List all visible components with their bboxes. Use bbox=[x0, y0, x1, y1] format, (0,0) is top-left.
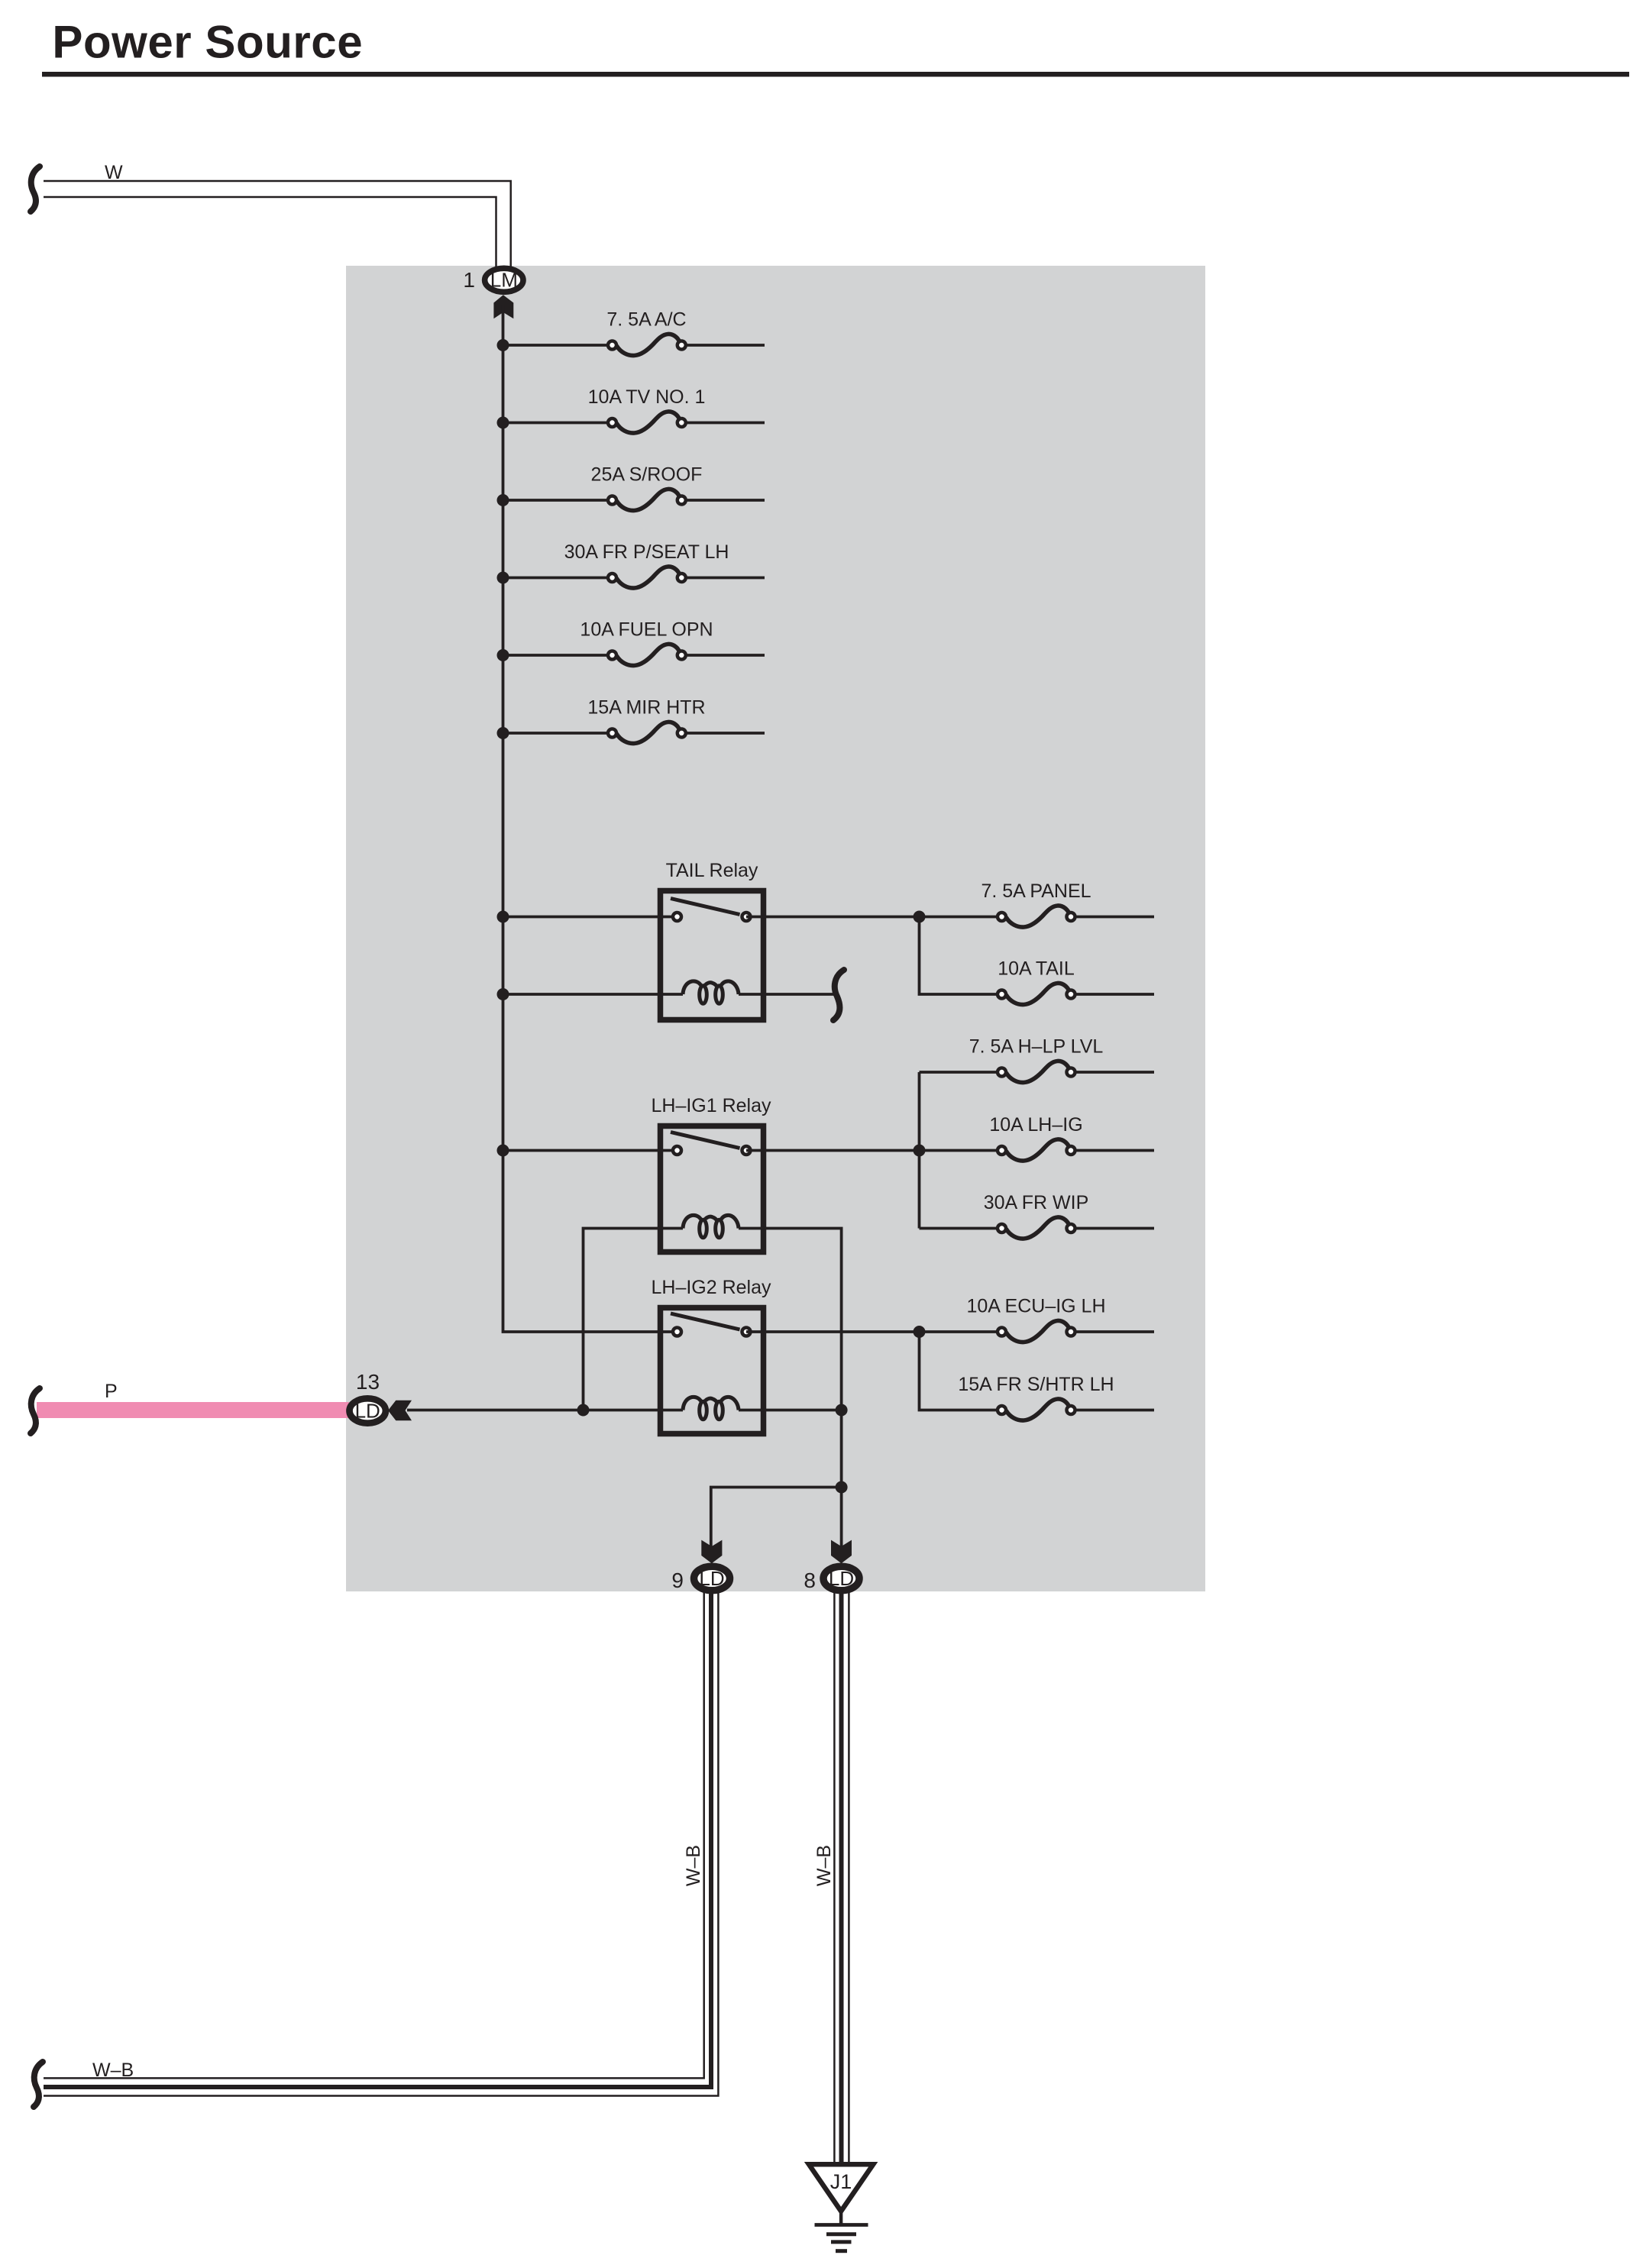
connector 8 LD arrow (down) bbox=[831, 1540, 852, 1564]
wire junction down to TAIL fuse row bbox=[920, 917, 1002, 995]
wire to FR WIP fuse bbox=[920, 1227, 1002, 1230]
fuse 10A LH-IG bbox=[998, 1139, 1154, 1161]
relay LH-IG1 box bbox=[661, 1126, 764, 1252]
node bus-MIR bbox=[497, 727, 509, 739]
wire coil output down to ground branch bbox=[840, 1410, 843, 1551]
title underline bbox=[42, 72, 1629, 77]
connector 9 LD ellipse bbox=[694, 1566, 730, 1591]
node IG2 out junction bbox=[914, 1326, 926, 1338]
node ground branch junction bbox=[836, 1481, 848, 1494]
svg-text:Power Source: Power Source bbox=[52, 17, 363, 68]
wire TAIL coil output bbox=[739, 993, 837, 996]
svg-text:15A FR S/HTR LH: 15A FR S/HTR LH bbox=[958, 1374, 1114, 1395]
ground bar 1 bbox=[815, 2223, 868, 2227]
relay LH-IG2 coil bbox=[683, 1397, 739, 1419]
wire to fuse FUEL bbox=[503, 654, 613, 657]
svg-text:W–B: W–B bbox=[92, 2060, 134, 2081]
fuse 10A ECU-IG LH bbox=[998, 1320, 1154, 1342]
ground bar 4 bbox=[836, 2249, 847, 2253]
relay LH-IG1 switch contacts and blade bbox=[671, 1132, 751, 1155]
junction block J/B background bbox=[346, 266, 1205, 1591]
svg-text:LH–IG2 Relay: LH–IG2 Relay bbox=[651, 1277, 771, 1298]
relay LH-IG2 box bbox=[661, 1308, 764, 1434]
svg-text:10A TAIL: 10A TAIL bbox=[998, 958, 1075, 980]
wire W-B (white/black) from 8 LD down to ground bbox=[834, 1592, 849, 2163]
wire W (white, double line) top-left bbox=[44, 181, 511, 267]
fuse 25A S/ROOF bbox=[608, 489, 765, 510]
connector 9 LD arrow (down) bbox=[701, 1540, 722, 1564]
wire IG1 switch output bbox=[746, 1149, 1002, 1152]
svg-text:10A LH–IG: 10A LH–IG bbox=[989, 1114, 1082, 1136]
wire IG1 coil output down to IG2 coil output bbox=[739, 1229, 842, 1410]
wavy cut symbol at TAIL coil output bbox=[833, 970, 844, 1020]
svg-text:1: 1 bbox=[463, 268, 475, 292]
connector 13 LD ellipse bbox=[350, 1398, 386, 1423]
svg-text:J1: J1 bbox=[830, 2170, 852, 2193]
svg-text:LH–IG1 Relay: LH–IG1 Relay bbox=[651, 1095, 771, 1116]
node bus-TV bbox=[497, 417, 509, 429]
wire to fuse MIR bbox=[503, 732, 613, 735]
node bus-A/C bbox=[497, 339, 509, 351]
node TAIL out junction bbox=[914, 911, 926, 923]
wire IG2 switch output bbox=[746, 1330, 1002, 1333]
fuse 10A FUEL OPN bbox=[608, 644, 765, 665]
wire P (pink) from cut to connector 13 LD bbox=[37, 1402, 349, 1418]
node IG1 out junction bbox=[914, 1145, 926, 1157]
node bus-P/SEAT bbox=[497, 572, 509, 584]
fuse 7.5A H-LP LVL bbox=[998, 1061, 1154, 1082]
svg-text:TAIL Relay: TAIL Relay bbox=[666, 860, 758, 881]
svg-text:W–B: W–B bbox=[813, 1845, 835, 1886]
node bus-TAIL switch bbox=[497, 911, 509, 923]
wire branch to 9 LD bbox=[711, 1488, 842, 1551]
wire bus to TAIL coil bbox=[503, 993, 684, 996]
svg-text:7. 5A A/C: 7. 5A A/C bbox=[606, 309, 686, 331]
relay TAIL coil bbox=[683, 981, 739, 1003]
svg-text:LD: LD bbox=[355, 1400, 380, 1423]
connector LM pin 1 arrow (up) bbox=[493, 295, 513, 318]
wire to fuse S/ROOF bbox=[503, 499, 613, 502]
svg-text:8: 8 bbox=[804, 1569, 816, 1592]
wire 13 LD to IG2 coil bbox=[407, 1409, 683, 1412]
wire W-B (white/black) from 9 LD down and left bbox=[44, 1592, 718, 2096]
node bus-TAIL coil bbox=[497, 988, 509, 1000]
fuse 10A TV NO. 1 bbox=[608, 412, 765, 433]
connector 13 LD arrow (left) bbox=[388, 1401, 412, 1420]
wavy cut symbol at P wire bbox=[31, 1388, 40, 1433]
connector 1 LM ellipse bbox=[485, 268, 523, 292]
relay LH-IG1 coil bbox=[658, 1215, 739, 1237]
svg-text:13: 13 bbox=[356, 1370, 380, 1394]
ground stem bbox=[839, 2212, 843, 2224]
wire to fuse P/SEAT bbox=[503, 577, 613, 580]
fuse 15A MIR HTR bbox=[608, 722, 765, 743]
main bus wire vertical bbox=[503, 305, 677, 1332]
relay TAIL box bbox=[661, 891, 764, 1020]
ground J1 triangle bbox=[809, 2164, 873, 2211]
svg-text:LD: LD bbox=[829, 1567, 854, 1590]
svg-text:25A S/ROOF: 25A S/ROOF bbox=[591, 464, 703, 486]
svg-text:LM: LM bbox=[490, 269, 518, 292]
wire TAIL switch output bbox=[746, 916, 1002, 919]
wire IG1 coil input from LD line bbox=[584, 1229, 658, 1410]
svg-text:10A ECU–IG LH: 10A ECU–IG LH bbox=[966, 1296, 1105, 1317]
node bus-S/ROOF bbox=[497, 494, 509, 506]
wire bus to TAIL switch bbox=[503, 916, 677, 919]
svg-text:30A FR WIP: 30A FR WIP bbox=[984, 1192, 1089, 1213]
svg-text:10A TV NO. 1: 10A TV NO. 1 bbox=[588, 386, 706, 408]
node IG2 coil output junction bbox=[836, 1404, 848, 1417]
wire to H-LP fuse bbox=[920, 1071, 1002, 1074]
svg-text:9: 9 bbox=[671, 1569, 684, 1592]
fuse 7.5A A/C bbox=[608, 334, 765, 355]
fuse 30A FR P/SEAT LH bbox=[608, 567, 765, 588]
svg-text:15A MIR HTR: 15A MIR HTR bbox=[587, 697, 705, 719]
ground bar 2 bbox=[826, 2232, 856, 2236]
wire junction down to S/HTR fuse row bbox=[920, 1332, 1002, 1410]
ground bar 3 bbox=[831, 2240, 852, 2244]
svg-text:7. 5A H–LP LVL: 7. 5A H–LP LVL bbox=[969, 1036, 1104, 1058]
svg-text:W: W bbox=[105, 162, 123, 183]
svg-text:30A FR P/SEAT LH: 30A FR P/SEAT LH bbox=[564, 541, 729, 563]
wire IG2 coil output bbox=[739, 1409, 842, 1412]
fuse 7.5A PANEL bbox=[998, 906, 1154, 927]
svg-text:LD: LD bbox=[699, 1567, 724, 1590]
wire bus to IG1 switch bbox=[503, 1149, 677, 1152]
svg-text:W–B: W–B bbox=[683, 1845, 704, 1886]
wire to fuse A/C bbox=[503, 344, 613, 347]
svg-text:7. 5A PANEL: 7. 5A PANEL bbox=[981, 880, 1091, 902]
connector 8 LD ellipse bbox=[823, 1566, 859, 1591]
node bus-FUEL bbox=[497, 649, 509, 661]
fuse 15A FR S/HTR LH bbox=[998, 1399, 1154, 1420]
relay TAIL switch contacts and blade bbox=[671, 899, 751, 922]
fuse 10A TAIL bbox=[998, 983, 1154, 1004]
wire to fuse TV bbox=[503, 422, 613, 425]
svg-text:P: P bbox=[105, 1381, 118, 1402]
wire junction vertical H-LP to FR WIP bbox=[918, 1072, 921, 1229]
relay LH-IG2 switch contacts and blade bbox=[671, 1313, 751, 1336]
node bus-IG1 switch bbox=[497, 1145, 509, 1157]
wavy cut symbol at W wire bbox=[31, 166, 40, 212]
svg-text:10A FUEL OPN: 10A FUEL OPN bbox=[580, 619, 713, 641]
fuse 30A FR WIP bbox=[998, 1217, 1154, 1239]
wavy cut symbol at W-B wire bbox=[34, 2062, 43, 2107]
node IG1 coil drop junction bbox=[577, 1404, 590, 1417]
